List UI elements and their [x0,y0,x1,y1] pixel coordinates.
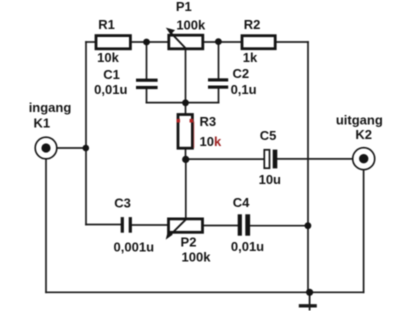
svg-text:K2: K2 [355,127,372,142]
junction C4 right rail [305,222,312,229]
wire P1 to R2 [203,41,243,43]
svg-text:C2: C2 [232,66,249,81]
svg-text:10k: 10k [200,134,222,149]
wire left rail [85,42,87,225]
wire K1 down [45,159,47,292]
capacitor C3 [121,217,132,233]
svg-text:0,01u: 0,01u [231,239,264,254]
wire R3 bottom to mid node [185,148,187,159]
svg-text:ingang: ingang [29,100,72,115]
wire bus C1-C2 bottom [147,102,219,104]
wire mid node down to P2 wiper [185,159,187,219]
junction P1-R2-C2 [215,38,222,45]
wire K2 down [363,170,365,293]
svg-text:P1: P1 [176,0,192,14]
wire C1 top lead [146,42,148,79]
svg-text:C5: C5 [260,128,277,143]
connector K2 [353,148,375,170]
wire K1 to left rail [57,147,86,149]
junction ground node [306,289,313,296]
wire P1 wiper down [185,49,187,103]
wire C3 to P2 [132,224,169,226]
svg-text:P2: P2 [181,234,197,249]
red mark left on R3 [177,119,180,123]
svg-text:10u: 10u [259,172,281,187]
svg-text:R3: R3 [200,114,217,129]
capacitor C5 (polarized) [264,150,277,169]
wire rail to C3 [86,224,121,226]
junction mid node [182,156,189,163]
svg-text:R1: R1 [98,17,115,32]
svg-text:uitgang: uitgang [336,113,383,128]
connector K1 [35,137,57,159]
resistor R1 [96,36,130,49]
capacitor C4 [238,214,250,235]
svg-text:K1: K1 [33,116,50,131]
ground [299,292,317,310]
wire C2 bottom lead [218,89,220,103]
junction center bus node [182,99,189,106]
svg-text:100k: 100k [176,18,206,33]
svg-text:0,01u: 0,01u [94,82,127,97]
svg-text:100k: 100k [182,250,212,265]
capacitor C1 [136,79,158,90]
svg-text:R2: R2 [244,17,261,32]
wire P2 to C4 [203,225,238,227]
junction R1-C1 [143,39,150,46]
potentiometer P1 [166,28,203,49]
svg-text:10k: 10k [97,50,119,65]
wire junction to R3 top [185,103,187,115]
svg-text:0,001u: 0,001u [114,239,155,254]
svg-text:C4: C4 [233,195,250,210]
wire R2 to right rail corner [275,41,308,43]
svg-text:C1: C1 [103,67,120,82]
wire C4 to right rail [250,225,308,227]
potentiometer P2 [166,219,203,240]
capacitor C2 [208,78,228,88]
resistor R3 [178,115,192,149]
resistor R2 [242,36,275,49]
wire C1 bottom lead [146,89,148,103]
wire right rail [307,42,309,292]
svg-text:C3: C3 [114,195,131,210]
wire mid node to C5 [186,158,265,160]
wire C5 to K2 [277,158,353,160]
svg-text:0,1u: 0,1u [231,82,257,97]
wire R1 to P1 [130,41,169,43]
wire bottom ground bus [46,291,364,293]
red mark right on R3 [190,119,194,123]
wire C2 top lead [218,42,220,78]
svg-text:1k: 1k [243,50,258,65]
junction K1 rail [83,145,90,152]
red line right of R3 [193,122,195,149]
wire top from rail to R1 [86,41,96,43]
